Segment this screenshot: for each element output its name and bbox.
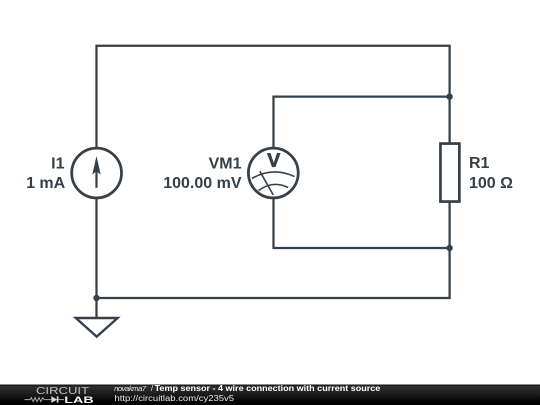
voltmeter VM1 xyxy=(248,148,298,198)
node: junction top right xyxy=(446,93,452,99)
node: junction bottom right xyxy=(446,245,452,251)
svg-text:100.00 mV: 100.00 mV xyxy=(163,175,242,192)
logo schematic glyph: wire, resistor zigzag, diode xyxy=(24,396,64,403)
wire: bottom rail and right riser below R1 xyxy=(97,202,450,299)
wire: top loop (left riser, top rail, right riser to R1) xyxy=(97,46,450,148)
svg-text:1 mA: 1 mA xyxy=(26,175,66,192)
svg-text:100 Ω: 100 Ω xyxy=(469,175,513,192)
svg-text:LAB: LAB xyxy=(64,395,94,405)
svg-text:Temp sensor - 4 wire connectio: Temp sensor - 4 wire connection with cur… xyxy=(155,384,381,393)
wire: left vertical below I1 to ground node xyxy=(95,198,97,298)
wire: voltmeter top branch xyxy=(274,97,450,148)
svg-text:R1: R1 xyxy=(469,155,490,172)
resistor R1 xyxy=(440,144,459,202)
ground xyxy=(76,298,118,337)
svg-text:I1: I1 xyxy=(51,156,64,173)
wire: voltmeter bottom branch xyxy=(274,198,450,248)
svg-text:VM1: VM1 xyxy=(209,156,242,173)
node: ground junction xyxy=(93,295,99,301)
svg-text:novakma7: novakma7 xyxy=(114,384,147,393)
svg-text:http://circuitlab.com/cy235v5: http://circuitlab.com/cy235v5 xyxy=(115,394,235,403)
current source I1 xyxy=(72,148,122,198)
footer bar xyxy=(0,385,540,405)
